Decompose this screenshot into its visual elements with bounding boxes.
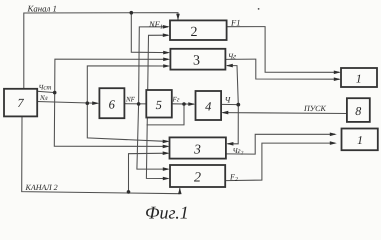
block 4 xyxy=(196,91,222,120)
svg-text:5: 5 xyxy=(156,98,162,112)
block 2 top counter xyxy=(170,20,227,40)
arrowhead into unit 2 bottom input 1 xyxy=(163,167,170,171)
svg-text:Фиг.1: Фиг.1 xyxy=(145,202,189,222)
wire: Nл output of unit 7 to unit 6 xyxy=(37,102,97,104)
junction node on Nл line xyxy=(86,101,90,105)
svg-text:Канал 1: Канал 1 xyxy=(27,3,57,13)
block 5 xyxy=(146,90,172,118)
arrowhead into unit 3 bottom input 2 xyxy=(163,145,170,149)
arrowhead into unit 2 top left input NF xyxy=(163,25,170,29)
block 6 xyxy=(99,88,124,118)
arrowhead into unit 1 top input Чг xyxy=(334,77,341,81)
wire: Ч output of unit 4 xyxy=(221,103,238,105)
svg-text:7: 7 xyxy=(17,96,24,110)
wire: КАНАЛ 2 bottom line from unit 7 xyxy=(22,117,180,194)
svg-text:Чг: Чг xyxy=(228,52,236,61)
junction node on КАНАЛ 2 line xyxy=(127,190,131,194)
wire: КАНАЛ 2 riser to unit 3 bottom input 3 xyxy=(129,153,168,192)
wire: ПУСК line from unit 8 to unit 4 xyxy=(223,112,347,115)
arrowhead into unit 3 top input 2 xyxy=(163,58,170,62)
wire: Чст drop down to unit 3 bottom input 2 xyxy=(54,93,167,147)
svg-text:1: 1 xyxy=(356,71,362,85)
arrowhead into unit 1 bottom input Чг2 xyxy=(330,133,337,137)
svg-text:Чст: Чст xyxy=(39,83,52,91)
wire: Ч drop entering unit 3 bottom right side xyxy=(228,105,238,144)
svg-text:3: 3 xyxy=(193,142,201,157)
svg-text:КАНАЛ 2: КАНАЛ 2 xyxy=(25,183,58,192)
wire: Чг2 output of unit 3 bottom to unit 1 bottom xyxy=(226,134,334,154)
scan speck xyxy=(258,8,260,10)
wire: Чст output of unit 7 xyxy=(37,91,55,92)
junction node on Ч line xyxy=(236,103,240,107)
wire: NF drop to unit 2 bottom input 1 xyxy=(137,104,167,169)
svg-text:1: 1 xyxy=(357,133,363,147)
wire: Чст riser up to unit 3 top input 2 xyxy=(55,59,168,92)
junction node on NF line xyxy=(137,102,141,106)
arrowhead into unit 3 top input 3 xyxy=(163,64,170,68)
svg-text:3: 3 xyxy=(193,54,200,69)
arrowhead into unit 3 bottom input 1 xyxy=(163,140,170,144)
svg-text:4: 4 xyxy=(205,99,211,113)
wire: NF riser to unit 2 top input 2 xyxy=(139,27,168,104)
arrowhead into unit 2 bottom from КАНАЛ 2 xyxy=(178,188,182,195)
svg-text:ПУСК: ПУСК xyxy=(303,104,326,113)
junction node on Чст line xyxy=(53,91,57,95)
wire: NF output of unit 6 to unit 5 xyxy=(125,103,147,105)
arrowhead into unit 6 xyxy=(92,101,99,105)
wire: Fг drop to unit 2 bottom input 2 xyxy=(146,125,167,179)
block 1 top indicator xyxy=(341,68,377,87)
svg-text:2: 2 xyxy=(194,171,201,186)
svg-text:Nл: Nл xyxy=(39,94,48,102)
arrowhead into unit 3 bottom right side xyxy=(226,142,233,146)
wire: Nл riser up to unit 3 top input 3 xyxy=(87,66,167,103)
svg-text:NF: NF xyxy=(125,95,136,103)
wire: Fг branch down and left xyxy=(147,104,184,125)
block 8 start button xyxy=(347,98,370,122)
wire: Ч riser entering unit 3 top right side xyxy=(228,66,239,105)
block 1 bottom indicator xyxy=(342,129,378,151)
svg-text:2: 2 xyxy=(191,25,198,40)
arrowhead into unit 2 bottom input 2 xyxy=(163,177,170,181)
wire: Чг output of unit 3 top to unit 1 top xyxy=(226,59,339,79)
wire: Канал 1 top line xyxy=(24,13,178,89)
arrowhead into unit 4 right from ПУСК xyxy=(221,111,228,115)
wire: F1 output of unit 2 top to unit 1 top xyxy=(227,27,339,73)
arrowhead into unit 1 top input F1 xyxy=(334,71,341,75)
wire: Fг output of unit 5 to unit 4 xyxy=(172,103,194,105)
svg-text:F1: F1 xyxy=(230,17,240,27)
wire: F2 output of unit 2 bottom to unit 1 bottom xyxy=(225,143,334,181)
wire: Nл drop down to unit 3 bottom input 1 xyxy=(87,103,167,141)
arrowhead into unit 2 top from Канал 1 xyxy=(176,14,180,21)
svg-text:Fг: Fг xyxy=(172,96,180,104)
block 3 top counter xyxy=(170,49,225,70)
arrowhead into unit 3 bottom input 3 xyxy=(163,151,170,155)
junction node on Fг line xyxy=(182,102,186,106)
wire: Fг riser to unit 2 top input 3 xyxy=(147,35,167,125)
block 2 bottom counter xyxy=(170,165,225,187)
svg-text:8: 8 xyxy=(355,104,361,118)
svg-text:6: 6 xyxy=(109,98,116,112)
block 7 pulse shaper xyxy=(4,89,37,117)
arrowhead into unit 3 top right side xyxy=(226,64,233,68)
wire: Канал 1 branch down to unit 3 top input 1 xyxy=(131,13,167,53)
arrowhead into unit 1 bottom input F2 xyxy=(330,141,337,145)
arrowhead into unit 3 top input 1 xyxy=(163,51,170,55)
arrowhead into unit 4 left xyxy=(188,102,195,106)
block 3 bottom counter xyxy=(170,137,226,158)
junction node on Канал 1 line xyxy=(130,11,134,15)
arrowhead into unit 2 top left input Fг xyxy=(163,33,170,37)
